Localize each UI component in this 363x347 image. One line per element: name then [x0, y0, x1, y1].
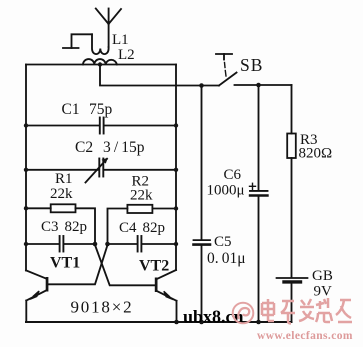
wire left rail	[25, 65, 27, 271]
svg-text:22k: 22k	[130, 188, 153, 204]
wire R3 to battery	[291, 158, 293, 277]
node C4 right	[174, 242, 178, 246]
svg-text:1000μ: 1000μ	[207, 183, 245, 199]
wire right rail	[175, 65, 177, 271]
wire cross-coupling C4 to VT1 base	[49, 245, 108, 284]
wire C6 branch lower	[258, 197, 260, 323]
wire R1 right lead	[76, 208, 96, 244]
wire antenna counterpoise stub	[63, 34, 92, 48]
svg-text:C175p: C175p	[62, 101, 113, 118]
svg-text:SB: SB	[240, 55, 263, 75]
wire C3 row right	[64, 243, 95, 245]
watermark stamp circle	[233, 303, 254, 324]
node C5 bottom	[199, 320, 204, 325]
capacitor C6	[250, 183, 268, 195]
capacitor C2 variable	[99, 159, 103, 177]
wire C5 branch lower	[201, 246, 203, 322]
wire bottom rail	[26, 321, 292, 323]
node C2 left	[24, 168, 28, 172]
node C6 bottom	[256, 320, 261, 325]
resistor R3	[287, 134, 296, 159]
svg-text:R1: R1	[55, 171, 73, 187]
wire C4 row right	[142, 243, 176, 245]
wire R2 left lead	[108, 209, 128, 245]
svg-text:VT1: VT1	[50, 255, 80, 272]
node C2 right	[174, 168, 178, 172]
svg-text:L1: L1	[112, 32, 129, 48]
svg-text:C382p: C382p	[41, 219, 87, 235]
svg-text:9V: 9V	[314, 284, 333, 300]
node C6 top	[256, 83, 261, 88]
svg-text:VT2: VT2	[139, 258, 169, 275]
wire cross-coupling C3 to VT2 base	[95, 245, 155, 285]
node C3 left	[24, 242, 28, 246]
node L2 tap	[98, 62, 102, 66]
wire R1 left lead	[26, 207, 51, 209]
wire L2 tap to switch	[100, 65, 219, 86]
svg-text:C482p: C482p	[119, 220, 165, 236]
wire C1 row left	[26, 125, 99, 127]
antenna	[96, 9, 121, 48]
svg-text:C5: C5	[214, 234, 232, 250]
svg-text:L2: L2	[118, 47, 135, 63]
transistor VT1	[26, 270, 48, 300]
node switch contact	[199, 83, 204, 88]
node C1 left	[24, 123, 28, 127]
wire C2 row left	[26, 169, 98, 171]
wire C6 branch upper	[258, 85, 260, 190]
wire battery to rail	[291, 284, 293, 323]
battery GB	[277, 278, 308, 282]
node C4 left junction	[105, 242, 110, 247]
node R1 left	[24, 206, 28, 210]
resistor R2	[127, 205, 152, 213]
svg-text:www.elecfans.com: www.elecfans.com	[257, 330, 353, 342]
wire C1 row right	[105, 125, 176, 127]
svg-text:ubx8.cn: ubx8.cn	[183, 307, 244, 327]
watermark chinese characters	[262, 298, 352, 324]
resistor R1	[51, 204, 76, 212]
capacitor C3	[60, 236, 64, 252]
wire C3 row left	[26, 243, 59, 245]
wire switch to R3 branch	[235, 84, 292, 86]
switch SB lever	[219, 73, 237, 86]
svg-text:C23 / 15p: C23 / 15p	[75, 139, 145, 156]
node R2 right	[174, 206, 178, 210]
wire C2 row right	[105, 169, 177, 171]
capacitor C1	[100, 118, 104, 134]
capacitor C2 arrow	[86, 158, 108, 183]
switch SB actuator	[216, 54, 232, 76]
node VT2 emitter rail junction	[174, 320, 179, 325]
wire R2 right lead	[152, 208, 176, 210]
wire top rail	[26, 64, 176, 66]
transistor VT2	[155, 270, 177, 301]
wire C5 branch upper	[201, 86, 203, 240]
capacitor C4	[138, 236, 142, 252]
wire R3 branch upper	[291, 85, 293, 134]
svg-text:22k: 22k	[50, 186, 73, 202]
inductor L2	[83, 59, 117, 64]
svg-text:C6: C6	[224, 167, 242, 183]
capacitor C5	[194, 240, 211, 245]
svg-text:0. 01μ: 0. 01μ	[207, 250, 246, 267]
inductor L1	[92, 34, 109, 54]
node C1 right	[174, 123, 178, 127]
wire VT2 emitter to rail	[176, 301, 178, 322]
svg-text:9018×2: 9018×2	[71, 298, 134, 317]
wire VT1 emitter to rail	[25, 301, 27, 323]
svg-text:GB: GB	[312, 268, 333, 284]
node C3 right junction	[93, 242, 98, 247]
wire C4 row left	[108, 243, 137, 245]
svg-text:820Ω: 820Ω	[299, 146, 333, 162]
